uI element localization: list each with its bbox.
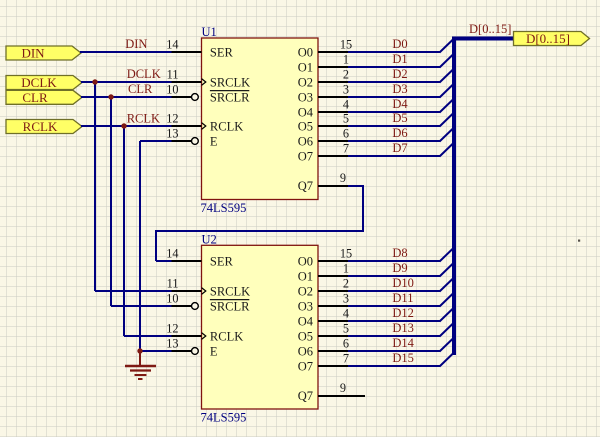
pin 15 O0 (U2) — [298, 246, 352, 268]
wire D7 to bus — [348, 143, 454, 157]
svg-text:14: 14 — [166, 246, 178, 260]
junction on CLR wire — [108, 94, 113, 99]
svg-text:5: 5 — [343, 321, 349, 335]
net label D13 — [392, 321, 414, 335]
svg-text:D2: D2 — [392, 67, 407, 81]
svg-text:CLR: CLR — [128, 82, 153, 96]
svg-text:O2: O2 — [298, 284, 313, 298]
svg-text:O7: O7 — [298, 149, 313, 163]
svg-text:D6: D6 — [392, 126, 407, 140]
wire E vertical branch to U2 E and ground — [140, 141, 192, 351]
net label D9 — [392, 261, 407, 275]
svg-text:O2: O2 — [298, 75, 313, 89]
net label D5 — [392, 111, 407, 125]
svg-text:SRCLR: SRCLR — [210, 90, 250, 104]
svg-text:6: 6 — [343, 126, 349, 140]
port DCLK — [6, 75, 82, 90]
svg-text:D5: D5 — [392, 111, 407, 125]
net label D3 — [392, 82, 407, 96]
svg-text:SRCLK: SRCLK — [210, 284, 250, 298]
wire D0 to bus — [348, 39, 454, 53]
svg-text:13: 13 — [166, 126, 178, 140]
svg-text:O1: O1 — [298, 60, 313, 74]
pin 10 SRCLR (U2) — [166, 291, 250, 313]
pin 4 O4 (U1) — [298, 97, 349, 119]
svg-text:O4: O4 — [298, 105, 314, 119]
pin 12 RCLK (U1) — [166, 111, 243, 133]
svg-text:O7: O7 — [298, 359, 313, 373]
wire D2 to bus — [348, 69, 454, 83]
wire D12 to bus — [348, 308, 454, 322]
stray mark — [578, 240, 580, 242]
svg-text:1: 1 — [343, 261, 349, 275]
svg-text:SRCLR: SRCLR — [210, 299, 250, 313]
wire DCLK vertical branch to U2 SRCLK — [95, 82, 202, 291]
wire D3 to bus — [348, 84, 454, 98]
svg-text:O3: O3 — [298, 299, 313, 313]
svg-text:11: 11 — [167, 67, 179, 81]
svg-text:O1: O1 — [298, 269, 313, 283]
net label D12 — [392, 306, 414, 320]
svg-text:4: 4 — [343, 97, 349, 111]
svg-text:O6: O6 — [298, 134, 313, 148]
svg-text:Q7: Q7 — [298, 389, 313, 403]
net label D14 — [392, 336, 414, 350]
svg-text:D[0..15]: D[0..15] — [469, 22, 511, 36]
designator U1 — [202, 25, 217, 39]
wire U1 E to left elbow — [140, 140, 192, 142]
svg-text:2: 2 — [343, 276, 349, 290]
pin 2 O2 (U1) — [298, 67, 349, 89]
net label D15 — [392, 351, 414, 365]
net label D6 — [392, 126, 407, 140]
wire D15 to bus — [348, 353, 454, 367]
pin 12 RCLK (U2) — [166, 321, 243, 343]
svg-text:CLR: CLR — [22, 90, 48, 105]
svg-text:1: 1 — [343, 52, 349, 66]
svg-text:RCLK: RCLK — [127, 111, 160, 125]
pin 1 O1 (U1) — [298, 52, 349, 74]
net label D[0..15] on bus — [469, 22, 511, 36]
pin 3 O3 (U2) — [298, 291, 349, 313]
svg-text:D13: D13 — [392, 321, 414, 335]
net label D7 — [392, 141, 407, 155]
pin 6 O6 (U1) — [298, 126, 349, 148]
pin 9 Q7 (U1) — [298, 171, 348, 193]
svg-text:RCLK: RCLK — [210, 119, 243, 133]
wire DCLK port to U1 SRCLK — [81, 81, 202, 83]
svg-text:D0: D0 — [392, 37, 407, 51]
wire D13 to bus — [348, 323, 454, 337]
svg-text:9: 9 — [340, 381, 346, 395]
pin 10 SRCLR (U1) — [166, 82, 250, 104]
IC U2 74LS595 body — [202, 245, 319, 409]
port CLR — [6, 90, 82, 105]
svg-text:SER: SER — [210, 45, 234, 59]
svg-text:11: 11 — [167, 276, 179, 290]
svg-text:SER: SER — [210, 254, 234, 268]
svg-text:O3: O3 — [298, 90, 313, 104]
pin 13 E (U1) — [166, 126, 218, 148]
designator U2 — [202, 232, 217, 246]
wire D14 to bus — [348, 338, 454, 352]
svg-text:U1: U1 — [202, 25, 217, 39]
svg-text:RCLK: RCLK — [210, 329, 243, 343]
svg-text:14: 14 — [166, 37, 178, 51]
wire DIN port to U1 SER — [80, 51, 202, 53]
pin 13 E (U2) — [166, 336, 218, 358]
svg-text:D3: D3 — [392, 82, 407, 96]
pin 5 O5 (U2) — [298, 321, 349, 343]
ground — [125, 351, 156, 379]
bus D[0..15] vertical — [452, 37, 456, 356]
value label 74LS595 (U2) — [201, 411, 247, 425]
pin 2 O2 (U2) — [298, 276, 349, 298]
net label D0 — [392, 37, 407, 51]
svg-text:D10: D10 — [392, 276, 414, 290]
net label D8 — [392, 246, 407, 260]
wire D1 to bus — [348, 54, 454, 68]
svg-text:Q7: Q7 — [298, 179, 313, 193]
junction on RCLK wire — [121, 123, 126, 128]
port D[0..15] — [514, 31, 590, 46]
pin 7 O7 (U2) — [298, 351, 349, 373]
pin 14 SER (U1) — [166, 37, 233, 59]
svg-text:D15: D15 — [392, 351, 414, 365]
pin 3 O3 (U1) — [298, 82, 349, 104]
wire RCLK port to U1 RCLK — [81, 125, 202, 127]
net label D1 — [392, 52, 407, 66]
svg-text:O0: O0 — [298, 45, 313, 59]
svg-text:9: 9 — [340, 171, 346, 185]
wire U1 Q7 to U2 SER — [155, 185, 364, 261]
pin 4 O4 (U2) — [298, 306, 349, 328]
wire D11 to bus — [348, 293, 454, 307]
wire D10 to bus — [348, 278, 454, 292]
svg-text:10: 10 — [166, 291, 178, 305]
svg-text:74LS595: 74LS595 — [201, 201, 247, 215]
svg-text:D9: D9 — [392, 261, 407, 275]
svg-text:D1: D1 — [392, 52, 407, 66]
svg-text:U2: U2 — [202, 232, 217, 246]
svg-text:6: 6 — [343, 336, 349, 350]
junction on DCLK wire — [92, 79, 97, 84]
svg-text:2: 2 — [343, 67, 349, 81]
wire RCLK vertical branch to U2 RCLK — [124, 126, 202, 336]
svg-text:DIN: DIN — [125, 37, 147, 51]
svg-text:74LS595: 74LS595 — [201, 411, 247, 425]
svg-text:E: E — [210, 134, 218, 148]
wire D4 to bus — [348, 99, 454, 113]
svg-text:4: 4 — [343, 306, 349, 320]
wire D8 to bus — [348, 248, 454, 262]
svg-text:O5: O5 — [298, 329, 313, 343]
pin 11 SRCLK (U2) — [167, 276, 251, 298]
svg-text:D11: D11 — [392, 291, 413, 305]
svg-text:15: 15 — [340, 246, 352, 260]
svg-text:13: 13 — [166, 336, 178, 350]
svg-text:O5: O5 — [298, 119, 313, 133]
svg-text:D4: D4 — [392, 97, 408, 111]
svg-text:15: 15 — [340, 37, 352, 51]
svg-text:DCLK: DCLK — [21, 75, 57, 90]
svg-text:5: 5 — [343, 111, 349, 125]
svg-text:O0: O0 — [298, 254, 313, 268]
svg-text:D12: D12 — [392, 306, 414, 320]
wire CLR port to U1 SRCLR bubble — [81, 96, 192, 98]
pin 11 SRCLK (U1) — [167, 67, 251, 89]
port RCLK — [6, 119, 82, 134]
svg-text:12: 12 — [166, 321, 178, 335]
svg-text:SRCLK: SRCLK — [210, 75, 250, 89]
svg-text:3: 3 — [343, 82, 349, 96]
svg-text:7: 7 — [343, 141, 349, 155]
svg-text:7: 7 — [343, 351, 349, 365]
svg-text:D14: D14 — [392, 336, 414, 350]
value label 74LS595 (U1) — [201, 201, 247, 215]
pin 6 O6 (U2) — [298, 336, 349, 358]
svg-text:RCLK: RCLK — [23, 119, 58, 134]
net label D2 — [392, 67, 407, 81]
net label D4 — [392, 97, 408, 111]
net label D11 — [392, 291, 413, 305]
junction at ground node — [137, 348, 142, 353]
svg-text:DCLK: DCLK — [127, 67, 161, 81]
pin 14 SER (U2) — [166, 246, 233, 268]
pin 1 O1 (U2) — [298, 261, 349, 283]
svg-text:DIN: DIN — [21, 46, 45, 61]
svg-text:O4: O4 — [298, 314, 314, 328]
pin 5 O5 (U1) — [298, 111, 349, 133]
IC U1 74LS595 body — [202, 38, 319, 200]
wire CLR vertical branch to U2 SRCLR — [111, 97, 192, 306]
pin 7 O7 (U1) — [298, 141, 349, 163]
svg-text:E: E — [210, 344, 218, 358]
wire D5 to bus — [348, 113, 454, 127]
port DIN — [6, 46, 81, 61]
svg-text:D8: D8 — [392, 246, 407, 260]
svg-text:D[0..15]: D[0..15] — [526, 31, 570, 46]
net label D10 — [392, 276, 414, 290]
pin 15 O0 (U1) — [298, 37, 352, 59]
svg-text:3: 3 — [343, 291, 349, 305]
svg-text:D7: D7 — [392, 141, 407, 155]
svg-text:10: 10 — [166, 82, 178, 96]
pin 9 Q7 (U2) unconnected stub — [298, 381, 365, 403]
svg-text:12: 12 — [166, 111, 178, 125]
wire D6 to bus — [348, 128, 454, 142]
bus D[0..15] horizontal to port — [452, 37, 514, 41]
svg-text:O6: O6 — [298, 344, 313, 358]
wire D9 to bus — [348, 263, 454, 277]
